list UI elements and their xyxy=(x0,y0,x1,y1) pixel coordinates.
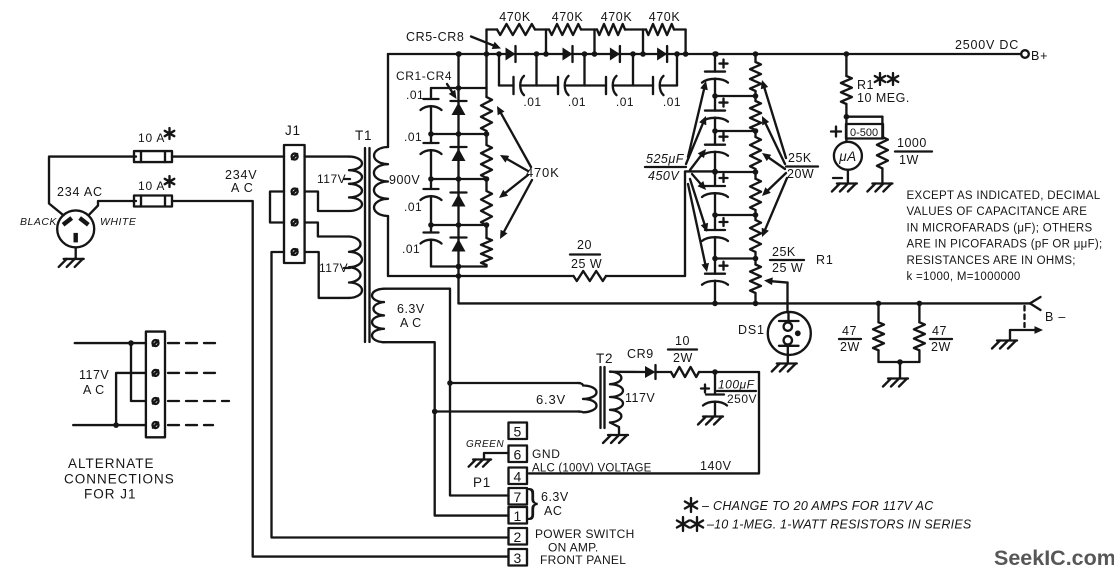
wire 525uF capacitor stack xyxy=(714,54,716,303)
label 47/2W (left) xyxy=(839,324,861,354)
svg-text:CR1-CR4: CR1-CR4 xyxy=(396,69,452,83)
label ON AMP. xyxy=(548,541,599,555)
label POWER SWITCH xyxy=(535,527,635,541)
label 117V (primary2) xyxy=(319,261,350,275)
svg-text:R1: R1 xyxy=(857,78,874,92)
terminal B+ xyxy=(1021,49,1048,63)
ground at DS1 xyxy=(772,364,797,372)
svg-text:6.3V: 6.3V xyxy=(536,392,566,407)
svg-text:R1: R1 xyxy=(816,253,834,267)
wire 6.3V pair bottom xyxy=(432,409,580,415)
junction dots capacitor column xyxy=(428,131,434,228)
label 234 AC xyxy=(57,185,103,199)
arrow 470K column xyxy=(500,155,528,171)
svg-text:100μF: 100μF xyxy=(718,378,755,392)
arrow 525uF stack xyxy=(688,81,708,157)
wire 6.3V bottom lead to P1 pin1 riser xyxy=(384,342,509,515)
wire alt top to t3 xyxy=(131,343,146,401)
svg-text:3: 3 xyxy=(514,550,522,566)
terminal altJ1-3 xyxy=(153,398,159,404)
arrow 25K 20W xyxy=(762,173,786,196)
wire T1 primary2 bottom to J1 t4 xyxy=(305,252,349,298)
capacitor .01 C4 xyxy=(421,233,442,244)
label 470K (column) xyxy=(526,165,560,180)
label + (C15) xyxy=(720,262,728,270)
terminal J1-3 xyxy=(292,220,298,226)
svg-text:CONNECTIONS: CONNECTIONS xyxy=(64,472,175,487)
terminal B- jack xyxy=(1030,297,1041,310)
wire to 140V loop xyxy=(699,369,759,375)
label .01 (C5) xyxy=(523,95,541,109)
resistor 47 2W (left) xyxy=(873,303,884,362)
transformer T1 core xyxy=(365,148,370,342)
label 10 A* (F1) xyxy=(138,128,174,145)
label 525uF/450V xyxy=(645,152,686,183)
ground at plug xyxy=(59,247,84,267)
svg-text:25K: 25K xyxy=(772,245,796,259)
svg-text:1000: 1000 xyxy=(897,136,927,150)
label + (100uF) xyxy=(701,385,709,393)
capacitor 100uF xyxy=(703,372,727,416)
watermark SeekIC.com xyxy=(994,546,1114,570)
arrow 470K column xyxy=(500,180,532,239)
wire CR9 to resistor xyxy=(656,371,672,373)
svg-text:4: 4 xyxy=(514,469,522,485)
junction dots resistor column xyxy=(484,131,490,228)
wire J1 t3 to T1 primary 2 xyxy=(305,223,349,237)
fuse F1 10A xyxy=(134,151,172,162)
wire T1 primary1 bottom to J1 t2 xyxy=(305,192,349,212)
label .01 (C3) xyxy=(404,200,422,214)
svg-text:ALC (100V) VOLTAGE: ALC (100V) VOLTAGE xyxy=(532,463,652,475)
svg-text:117V: 117V xyxy=(79,368,109,382)
label + (C11) xyxy=(720,99,728,107)
svg-text:10: 10 xyxy=(675,334,690,348)
label FOR J1 xyxy=(84,487,137,502)
svg-text:FRONT PANEL: FRONT PANEL xyxy=(540,553,626,567)
label 470K (R5) xyxy=(499,10,531,24)
junction dots 525uF stack xyxy=(712,51,718,306)
wire alt dashes t3 xyxy=(168,400,229,402)
wire 140V right side xyxy=(529,372,759,473)
svg-text:T1: T1 xyxy=(355,128,372,143)
arrow CR1-CR4 to diode xyxy=(447,84,457,99)
capacitor 525uF C15 xyxy=(702,274,728,285)
svg-text:1W: 1W xyxy=(899,153,919,167)
svg-text:117V: 117V xyxy=(625,391,655,405)
wire F1 to J1 terminal 1 xyxy=(172,155,284,157)
svg-text:6: 6 xyxy=(514,447,522,463)
svg-text:EXCEPT AS INDICATED, DECIMAL: EXCEPT AS INDICATED, DECIMAL xyxy=(907,190,1101,202)
winding T1 primary1 117V xyxy=(349,157,362,211)
label 470K (R7) xyxy=(601,10,633,24)
wire midtap to 525uF stack xyxy=(685,171,715,276)
svg-text:20: 20 xyxy=(577,238,592,252)
svg-text:GND: GND xyxy=(532,447,560,461)
wire alt bottom to t2 xyxy=(116,373,146,425)
svg-text:.01: .01 xyxy=(663,95,681,109)
winding T2 primary 6.3V xyxy=(578,383,597,412)
wire .01 chain below diodes xyxy=(499,54,677,86)
label .01 (C6) xyxy=(568,95,586,109)
wire plug WHITE lead to fuse F2 xyxy=(89,201,137,215)
resistor 47 2W (right) xyxy=(914,303,925,362)
svg-text:470K: 470K xyxy=(499,10,531,24)
potentiometer R1 25K 25W xyxy=(750,265,761,304)
svg-text:GREEN: GREEN xyxy=(466,439,504,450)
label 117V AC (alt) xyxy=(79,368,109,397)
wire T1 secondary 900V bottom to lower rail xyxy=(387,216,389,276)
svg-text:ARE IN PICOFARADS (pF OR μμF);: ARE IN PICOFARADS (pF OR μμF); xyxy=(907,239,1103,251)
label 25K/20W xyxy=(786,151,818,181)
label ALTERNATE xyxy=(68,456,155,471)
svg-text:450V: 450V xyxy=(648,169,680,183)
svg-text:0-500: 0-500 xyxy=(850,127,878,139)
junction dots top rail xyxy=(456,51,849,57)
label GREEN xyxy=(466,439,504,450)
diode CR4 xyxy=(451,238,467,252)
lamp DS1 xyxy=(768,312,811,355)
svg-text:.01: .01 xyxy=(568,95,586,109)
svg-text:47: 47 xyxy=(842,324,857,338)
wire 6.3V top lead to P1 pin7 riser xyxy=(384,289,509,496)
resistor 20 25W xyxy=(574,271,607,281)
diode CR3 xyxy=(451,193,467,207)
svg-text:250V: 250V xyxy=(727,392,757,406)
label + (C14) xyxy=(720,218,728,226)
diode CR9 xyxy=(645,365,656,379)
label ALC (100V) VOLTAGE xyxy=(532,463,652,475)
capacitor .01 C3 xyxy=(421,189,442,200)
svg-text:.01: .01 xyxy=(406,88,424,102)
svg-text:A C: A C xyxy=(83,383,105,397)
capacitor 525uF C12 xyxy=(702,145,728,156)
wire meter to ground xyxy=(847,170,849,183)
svg-text:2W: 2W xyxy=(931,340,951,354)
label 900V xyxy=(389,173,420,187)
wire capacitor column xyxy=(430,88,432,267)
terminal altJ1-4 xyxy=(153,422,159,428)
wire alt dashes t1 xyxy=(168,342,221,344)
label + (C13) xyxy=(720,174,728,182)
svg-text:10 A: 10 A xyxy=(138,131,165,145)
ground at 47 ohm xyxy=(883,379,908,387)
svg-text:ALTERNATE: ALTERNATE xyxy=(68,456,155,471)
label T2 xyxy=(596,351,613,366)
label 25K/25W xyxy=(770,245,804,275)
resistor 470K R7 xyxy=(597,24,625,35)
capacitor .01 C7 xyxy=(606,76,617,95)
label BLACK xyxy=(20,216,57,228)
svg-text:470K: 470K xyxy=(552,10,584,24)
wire 47 ohm commons xyxy=(879,362,920,378)
label DS1 xyxy=(738,323,765,337)
ground at 100uF xyxy=(698,417,723,425)
svg-text:}: } xyxy=(527,483,538,521)
terminal J1-1 xyxy=(292,154,298,160)
label .01 (C7) xyxy=(616,95,634,109)
capacitor 525uF C14 xyxy=(702,230,728,241)
svg-text:FOR J1: FOR J1 xyxy=(84,487,137,502)
label P1 xyxy=(473,475,491,490)
label 47/2W (right) xyxy=(930,324,952,354)
arrow 25K 20W xyxy=(762,153,785,169)
svg-text:DS1: DS1 xyxy=(738,323,765,337)
wire diode column to B- rail xyxy=(457,267,459,304)
wire row links (cap/diode/resistor columns) xyxy=(431,88,487,267)
connector J1 body xyxy=(284,145,305,263)
arrow 25K 20W xyxy=(762,116,785,164)
capacitor .01 C5 xyxy=(514,76,525,95)
label R1 (pot) xyxy=(816,253,834,267)
ground at GREEN wire xyxy=(469,460,492,467)
capacitor 525uF C10 xyxy=(702,72,728,83)
label CR9 xyxy=(627,347,654,361)
wire 6.3V pair top xyxy=(447,380,580,386)
svg-text:6.3V: 6.3V xyxy=(541,490,569,504)
svg-text:.01: .01 xyxy=(616,95,634,109)
winding T1 6.3V AC xyxy=(372,289,384,343)
ground at meter xyxy=(832,184,857,192)
label + (meter) xyxy=(831,127,841,137)
label 117V (T2) xyxy=(625,391,655,405)
svg-text:B+: B+ xyxy=(1031,49,1048,63)
arrow 525uF stack xyxy=(692,174,706,190)
svg-text:5: 5 xyxy=(514,424,522,440)
junction dot meter branch xyxy=(844,114,850,120)
connector P1 pin 1 xyxy=(509,507,528,524)
terminal altJ1-2 xyxy=(153,370,159,376)
arrow 525uF stack xyxy=(688,184,709,272)
svg-text:POWER SWITCH: POWER SWITCH xyxy=(535,527,635,541)
note text block xyxy=(907,190,1103,283)
ground at B- xyxy=(992,341,1017,349)
wire J1 t4 to P1 pin 2 xyxy=(272,252,509,538)
diode CR2 xyxy=(451,147,467,161)
capacitor .01 C8 xyxy=(653,76,664,95)
capacitor 525uF C13 xyxy=(702,186,728,197)
svg-text:P1: P1 xyxy=(473,475,491,490)
winding T1 primary2 117V xyxy=(349,237,362,298)
svg-text:.01: .01 xyxy=(404,130,422,144)
label FRONT PANEL xyxy=(540,553,626,567)
capacitor 525uF C11 xyxy=(702,111,728,122)
arrow 525uF stack xyxy=(690,149,706,170)
wire F2 to P1 pin 3 xyxy=(172,201,509,557)
winding T1 secondary 900V xyxy=(374,147,388,216)
svg-text:VALUES OF CAPACITANCE ARE: VALUES OF CAPACITANCE ARE xyxy=(907,206,1088,218)
wire plug BLACK lead to fuse F1 xyxy=(49,157,136,216)
svg-text:– CHANGE TO 20 AMPS FOR 117V A: – CHANGE TO 20 AMPS FOR 117V AC xyxy=(701,499,934,513)
capacitor .01 C1 xyxy=(421,99,442,110)
connector alt J1 body xyxy=(146,332,165,438)
label J1 xyxy=(285,123,301,138)
junction dots diode column xyxy=(456,51,462,269)
resistor R1 10 MEG. xyxy=(841,54,852,117)
capacitor .01 C2 xyxy=(421,143,442,154)
wire B- ground arm xyxy=(1010,326,1043,339)
label 6.3V (to T2) xyxy=(536,392,566,407)
arrow CR5-CR8 to diode xyxy=(471,37,501,50)
svg-text:234 AC: 234 AC xyxy=(57,185,103,199)
svg-text:T2: T2 xyxy=(596,351,613,366)
label 10/2W xyxy=(668,334,697,365)
svg-text:A C: A C xyxy=(400,316,422,330)
svg-text:20W: 20W xyxy=(787,167,814,181)
wire pin6 to chassis xyxy=(484,453,509,459)
junction dots 25K chain xyxy=(753,93,759,306)
arrow 470K column xyxy=(499,175,528,198)
wire alt dashes t4 xyxy=(168,424,213,426)
wire lower rail (900V return) xyxy=(388,275,685,277)
wire J1 jumper t2-t3 xyxy=(270,192,284,223)
label 20/25W xyxy=(570,238,602,271)
label + (C10) xyxy=(720,60,728,68)
label 234V AC xyxy=(225,168,257,195)
wire cross links 25K chain xyxy=(715,96,756,259)
svg-text:μA: μA xyxy=(838,149,856,164)
label .01 (C8) xyxy=(663,95,681,109)
wire B- dashed link xyxy=(1023,306,1025,327)
svg-text:2W: 2W xyxy=(840,340,860,354)
arrow 25K 20W xyxy=(761,80,786,158)
svg-text:k =1000, M=1000000: k =1000, M=1000000 xyxy=(907,271,1021,283)
label 1000/1W xyxy=(895,136,932,167)
svg-text:117V: 117V xyxy=(317,172,346,186)
label .01 (C4) xyxy=(402,242,420,256)
diode CR1 xyxy=(451,101,467,115)
label 6.3V AC (P1) xyxy=(541,490,569,518)
svg-text:25 W: 25 W xyxy=(571,257,602,271)
label 117V (primary1) xyxy=(317,172,350,186)
wire diode column CR1-CR4 xyxy=(457,54,459,267)
arrow 525uF stack xyxy=(690,179,708,232)
resistor column 470K x4 xyxy=(481,54,492,267)
label 470K (R8) xyxy=(649,10,681,24)
diode CR6 xyxy=(563,46,573,62)
wire meter branch xyxy=(846,116,882,118)
wire meter lead xyxy=(845,117,847,142)
diode CR8 xyxy=(657,46,667,62)
wire B- rail xyxy=(459,302,1031,304)
label 10 A* (F2) xyxy=(138,176,174,193)
svg-text:BLACK: BLACK xyxy=(20,216,57,228)
svg-text:525μF: 525μF xyxy=(646,152,685,166)
connector P1 pin 2 xyxy=(509,528,528,545)
connector P1 pin 3 xyxy=(509,549,528,566)
wire T2 secondary to ground xyxy=(610,423,619,435)
connector plug 234AC xyxy=(57,210,94,247)
svg-text:–10 1-MEG. 1-WATT RESISTORS I: –10 1-MEG. 1-WATT RESISTORS IN SERIES xyxy=(706,518,972,532)
svg-text:B –: B – xyxy=(1045,310,1066,324)
svg-text:2W: 2W xyxy=(673,351,693,365)
svg-text:2500V DC: 2500V DC xyxy=(955,38,1019,52)
svg-text:7: 7 xyxy=(514,489,522,505)
svg-text:25K: 25K xyxy=(788,151,812,165)
terminal J1-2 xyxy=(292,189,298,195)
label GND xyxy=(532,447,560,461)
brace 6.3V AC xyxy=(527,483,538,521)
resistor 470K R5 xyxy=(497,24,535,35)
svg-text:SeekIC.com: SeekIC.com xyxy=(994,546,1114,570)
resistor 10 2W xyxy=(671,367,699,377)
label .01 (C1) xyxy=(406,88,424,102)
label .01 (C2) xyxy=(404,130,422,144)
svg-text:.01: .01 xyxy=(523,95,541,109)
wire alt top xyxy=(75,340,146,346)
svg-text:WHITE: WHITE xyxy=(100,216,137,228)
note * change to 20 amps xyxy=(685,498,934,513)
connector P1 pin 6 xyxy=(509,446,528,463)
label B- xyxy=(1045,310,1066,324)
svg-text:470K: 470K xyxy=(649,10,681,24)
svg-text:25 W: 25 W xyxy=(772,261,803,275)
wire T1 secondary 900V top to top rail xyxy=(387,54,389,147)
junction dots 47 ohm xyxy=(876,301,923,365)
label 100uF/250V xyxy=(717,378,757,407)
transformer T2 core xyxy=(601,367,605,428)
wire 470K bridge chain xyxy=(487,30,686,55)
arrow 25K 20W xyxy=(762,178,787,237)
diode CR7 xyxy=(610,46,620,62)
svg-text:900V: 900V xyxy=(389,173,420,187)
arrow R1 wiper xyxy=(764,277,788,312)
svg-text:J1: J1 xyxy=(285,123,301,138)
label CR1-CR4 xyxy=(396,69,452,83)
resistor chain 25K 20W x5 xyxy=(750,54,761,265)
resistor 470K R8 xyxy=(646,24,674,35)
svg-text:CR9: CR9 xyxy=(627,347,654,361)
label box 0-500 xyxy=(846,124,883,139)
fuse F2 10A xyxy=(134,196,172,207)
label 2500V DC xyxy=(955,38,1019,52)
wire DS1 to ground xyxy=(787,355,789,363)
winding T2 secondary 117V xyxy=(610,372,646,423)
ground at T2 xyxy=(603,435,628,443)
resistor 1000 1W xyxy=(877,117,888,183)
resistor 470K R6 xyxy=(549,24,581,35)
svg-text:47: 47 xyxy=(932,324,947,338)
junction dot lower rail at diode column xyxy=(456,264,462,279)
svg-text:CR5-CR8: CR5-CR8 xyxy=(406,30,464,44)
arrow 525uF stack xyxy=(686,116,706,164)
connector P1 pin 7 xyxy=(509,488,528,505)
label CR5-CR8 xyxy=(406,30,464,44)
wire alt bottom xyxy=(73,422,146,428)
svg-text:.01: .01 xyxy=(404,200,422,214)
svg-text:470K: 470K xyxy=(601,10,633,24)
wire B+ top rail 2500V xyxy=(388,53,1021,55)
label CONNECTIONS xyxy=(64,472,175,487)
label R1 ** 10 MEG. xyxy=(857,73,910,105)
label T1 xyxy=(355,128,372,143)
wire alt dashes t2 xyxy=(168,372,217,374)
label - (meter) xyxy=(833,177,842,179)
arrow 470K column xyxy=(497,106,531,167)
label 470K (R6) xyxy=(552,10,584,24)
label WHITE xyxy=(100,216,137,228)
note ** 10 1-meg resistors xyxy=(677,517,972,532)
svg-text:IN MICROFARADS (μF); OTHERS: IN MICROFARADS (μF); OTHERS xyxy=(907,222,1093,234)
svg-text:AC: AC xyxy=(544,504,562,518)
diode CR5 xyxy=(506,46,516,62)
connector P1 pin 4 xyxy=(509,468,528,485)
ground at 1000 1W xyxy=(867,184,892,192)
svg-text:10 MEG.: 10 MEG. xyxy=(857,91,910,105)
svg-text:2: 2 xyxy=(514,529,522,545)
svg-text:1: 1 xyxy=(514,508,522,524)
wire J1 t1 to T1 primary 1 xyxy=(305,155,349,157)
